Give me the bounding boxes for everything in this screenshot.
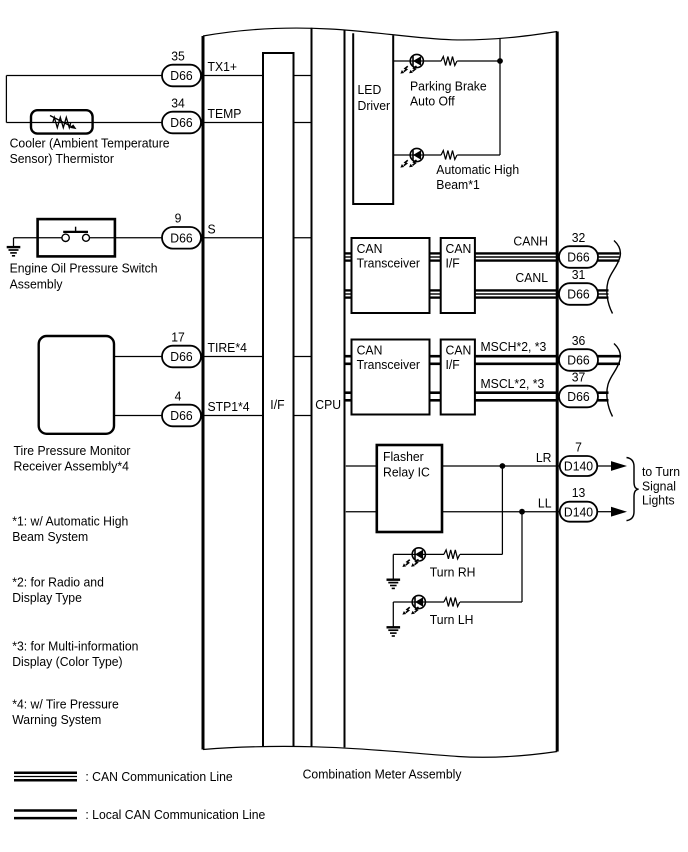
svg-text:D66: D66 [567,390,589,404]
svg-text:Signal: Signal [642,479,676,493]
svg-text:Cooler (Ambient Temperature: Cooler (Ambient Temperature [10,136,170,150]
svg-text:Automatic High: Automatic High [436,163,519,177]
svg-text:9: 9 [175,211,182,225]
svg-text:*4: w/ Tire Pressure: *4: w/ Tire Pressure [12,697,119,711]
svg-text:*1: w/ Automatic High: *1: w/ Automatic High [12,514,128,528]
svg-text:TX1+: TX1+ [208,60,238,74]
svg-text:D66: D66 [567,287,589,301]
svg-text:D66: D66 [170,231,192,245]
svg-text:Driver: Driver [358,99,391,113]
svg-text:4: 4 [175,389,182,403]
svg-text:Display (Color Type): Display (Color Type) [12,655,122,669]
svg-text:Transceiver: Transceiver [357,357,420,371]
svg-text:Warning System: Warning System [12,713,101,727]
svg-text:31: 31 [572,267,586,281]
svg-text:Beam*1: Beam*1 [436,178,479,192]
svg-text:Combination Meter Assembly: Combination Meter Assembly [303,767,463,781]
svg-text:CAN: CAN [357,242,383,256]
svg-text:D66: D66 [170,69,192,83]
svg-text:I/F: I/F [446,256,461,270]
svg-text:TEMP: TEMP [208,107,242,121]
svg-text:S: S [208,222,216,236]
svg-text:D66: D66 [170,350,192,364]
svg-text:STP1*4: STP1*4 [208,400,250,414]
svg-text:Auto Off: Auto Off [410,94,455,108]
svg-text:36: 36 [572,333,586,347]
svg-text:TIRE*4: TIRE*4 [208,341,247,355]
svg-text:CANH: CANH [513,234,548,248]
svg-text:D66: D66 [170,409,192,423]
svg-text:D140: D140 [564,459,593,473]
svg-text:D66: D66 [567,250,589,264]
svg-text:Transceiver: Transceiver [357,256,420,270]
svg-text:LED: LED [358,83,382,97]
svg-text:Engine Oil Pressure Switch: Engine Oil Pressure Switch [10,261,158,275]
svg-text:Display Type: Display Type [12,591,82,605]
svg-text:35: 35 [171,49,185,63]
svg-text:*3: for Multi-information: *3: for Multi-information [12,639,138,653]
svg-text:Turn LH: Turn LH [430,613,474,627]
svg-text:MSCL*2, *3: MSCL*2, *3 [481,376,545,390]
svg-text:: CAN Communication Line: : CAN Communication Line [85,770,232,784]
svg-text:Sensor) Thermistor: Sensor) Thermistor [10,152,114,166]
svg-text:CAN: CAN [357,343,383,357]
svg-text:7: 7 [575,440,582,454]
svg-text:Turn RH: Turn RH [430,565,476,579]
svg-text:Flasher: Flasher [383,450,424,464]
svg-text:D66: D66 [170,116,192,130]
svg-text:LR: LR [536,450,552,464]
svg-text:Relay IC: Relay IC [383,465,430,479]
svg-text:37: 37 [572,370,586,384]
svg-text:Beam System: Beam System [12,530,88,544]
svg-text:MSCH*2, *3: MSCH*2, *3 [481,340,547,354]
svg-text:I/F: I/F [270,398,285,412]
svg-text:13: 13 [572,486,586,500]
svg-text:D66: D66 [567,353,589,367]
svg-text:Assembly: Assembly [10,277,64,291]
svg-text:LL: LL [538,496,552,510]
svg-text:*2: for Radio and: *2: for Radio and [12,575,104,589]
svg-text:Parking Brake: Parking Brake [410,79,487,93]
svg-text:32: 32 [572,230,586,244]
svg-text:Receiver Assembly*4: Receiver Assembly*4 [14,459,129,473]
svg-text:17: 17 [171,330,185,344]
svg-text:CANL: CANL [515,271,548,285]
svg-text:34: 34 [171,96,185,110]
svg-text:Lights: Lights [642,493,675,507]
svg-text:I/F: I/F [446,357,461,371]
svg-text:CAN: CAN [446,242,472,256]
svg-text:D140: D140 [564,505,593,519]
svg-text:CPU: CPU [315,398,341,412]
svg-text:: Local CAN Communication Line: : Local CAN Communication Line [85,807,265,821]
svg-text:to Turn: to Turn [642,465,680,479]
svg-text:Tire Pressure Monitor: Tire Pressure Monitor [14,444,131,458]
svg-text:CAN: CAN [446,343,472,357]
